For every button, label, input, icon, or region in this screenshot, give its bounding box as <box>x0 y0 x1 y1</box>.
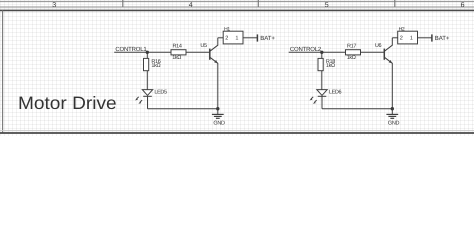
svg-text:1: 1 <box>235 36 238 42</box>
svg-text:1: 1 <box>410 36 413 42</box>
svg-text:1kΩ: 1kΩ <box>172 55 181 61</box>
svg-text:GND: GND <box>388 121 400 127</box>
svg-text:R17: R17 <box>347 43 356 49</box>
svg-text:U5: U5 <box>200 43 207 49</box>
svg-text:2: 2 <box>400 36 403 42</box>
svg-text:3: 3 <box>52 2 56 9</box>
svg-text:LED5: LED5 <box>154 90 167 96</box>
svg-text:1kΩ: 1kΩ <box>347 55 356 61</box>
svg-text:H1: H1 <box>224 26 230 32</box>
svg-text:5: 5 <box>325 2 329 9</box>
svg-text:6: 6 <box>461 2 465 9</box>
svg-text:H2: H2 <box>399 26 405 32</box>
svg-text:Motor Drive: Motor Drive <box>18 93 117 113</box>
svg-text:U6: U6 <box>375 43 382 49</box>
svg-text:R14: R14 <box>173 43 182 49</box>
svg-text:BAT+: BAT+ <box>435 35 450 42</box>
svg-text:LED6: LED6 <box>329 90 342 96</box>
svg-text:2: 2 <box>225 36 228 42</box>
svg-text:1kΩ: 1kΩ <box>326 63 335 69</box>
svg-text:BAT+: BAT+ <box>260 35 275 42</box>
svg-text:4: 4 <box>189 2 193 9</box>
svg-text:CONTROL1: CONTROL1 <box>115 46 147 53</box>
svg-text:GND: GND <box>213 121 225 127</box>
svg-text:1kΩ: 1kΩ <box>151 63 160 69</box>
svg-text:CONTROL2: CONTROL2 <box>290 46 322 53</box>
